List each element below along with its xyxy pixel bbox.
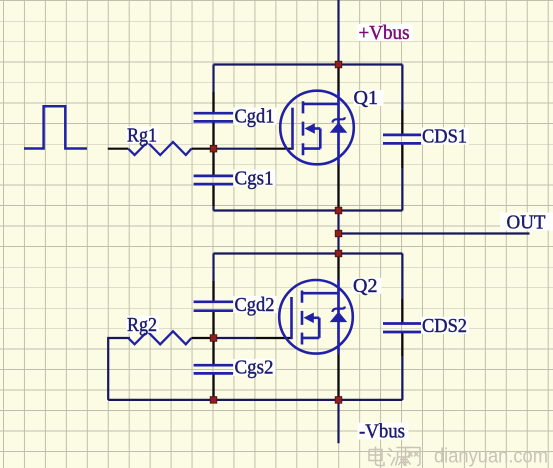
svg-text:Cgs2: Cgs2	[235, 357, 274, 379]
watermark glyph 源	[388, 448, 411, 466]
pin Q1 drain	[337, 65, 339, 92]
svg-text:Q1: Q1	[354, 87, 378, 109]
watermark glyph 电	[369, 447, 384, 466]
node J1 top rail / +Vbus	[335, 61, 342, 68]
label -Vbus	[358, 423, 409, 440]
pulse source symbol	[24, 106, 87, 148]
pin Q2 drain	[337, 254, 339, 281]
label Rg1	[126, 127, 159, 144]
label OUT	[500, 213, 553, 231]
svg-text:-Vbus: -Vbus	[359, 421, 405, 443]
capacitor Cgd1	[194, 113, 234, 121]
wire Q1 box bottom rail	[214, 209, 403, 211]
wire +Vbus vertical / center rail x=338.5	[337, 0, 339, 443]
label Cgd1	[234, 108, 277, 125]
wire Q2 gate horizontal	[214, 337, 257, 339]
wire Q2 gate node left vertical segments x=213.5	[212, 254, 214, 400]
pin Q1 source	[337, 165, 339, 211]
svg-text:OUT: OUT	[507, 211, 546, 233]
pin Q2 source	[337, 354, 339, 400]
label Cgs2	[234, 359, 276, 376]
MOSFET Q2	[279, 280, 353, 354]
pin Rg1 right	[191, 148, 214, 150]
capacitor CDS2	[383, 324, 422, 333]
svg-text:dianyuan.com: dianyuan.com	[434, 444, 548, 467]
label Q2	[352, 278, 382, 294]
pin Q2 gate	[256, 337, 292, 339]
pin Cgs1	[212, 149, 214, 206]
node J3 Q1 source rail	[335, 207, 342, 214]
label Q1	[354, 90, 384, 106]
capacitor CDS1	[383, 135, 422, 144]
wire Q1 gate node left vertical segments x=213.5	[212, 65, 214, 211]
node J8 Cgs2 bottom	[210, 397, 217, 404]
label CDS2	[421, 317, 469, 334]
wire Q1 box top rail	[214, 63, 403, 65]
pin Cgd2	[212, 281, 214, 338]
capacitor Cgs2	[194, 365, 234, 373]
svg-text:Cgd1: Cgd1	[235, 105, 275, 127]
label Cgd2	[234, 296, 277, 313]
svg-text:Cgd2: Cgd2	[235, 294, 275, 316]
capacitor Cgs1	[194, 176, 234, 184]
wire Q1 gate horizontal	[214, 148, 257, 150]
svg-text:Cgs1: Cgs1	[235, 167, 274, 189]
pin Q1 gate	[256, 148, 293, 150]
label +Vbus	[357, 24, 413, 41]
pin Cgs2	[212, 338, 214, 396]
label CDS1	[421, 128, 469, 145]
pin Rg1 left	[108, 148, 128, 150]
label Cgs1	[234, 170, 276, 187]
svg-text:Q2: Q2	[353, 275, 377, 297]
node J2 Q1 gate	[210, 145, 217, 152]
node J6 Q2 gate	[210, 335, 217, 342]
wire Q2 box top rail	[214, 252, 403, 254]
svg-text:CDS1: CDS1	[422, 126, 467, 148]
watermark glyph 网	[406, 448, 421, 466]
wire OUT net	[339, 232, 530, 234]
svg-text:CDS2: CDS2	[422, 315, 467, 337]
pin Rg2 right	[191, 337, 214, 339]
label Rg2	[126, 316, 159, 333]
wire CDS1 right branch x=402.4	[401, 65, 403, 211]
capacitor Cgd2	[194, 302, 234, 311]
pin CDS2	[401, 299, 403, 356]
wire Rg2 left loop	[108, 338, 130, 400]
node J4 OUT	[335, 230, 342, 237]
svg-text:+Vbus: +Vbus	[359, 22, 410, 44]
pin CDS1	[401, 110, 403, 168]
resistor Rg1	[128, 142, 191, 155]
wire CDS2 right branch x=402.4	[401, 254, 403, 400]
svg-text:Rg1: Rg1	[127, 125, 157, 147]
svg-text:Rg2: Rg2	[127, 314, 157, 336]
pin Cgd1	[212, 92, 214, 149]
node J7 bottom rail / -Vbus	[335, 397, 342, 404]
resistor Rg2	[128, 331, 191, 344]
wire bottom rail (-Vbus)	[108, 399, 402, 401]
MOSFET Q1	[280, 91, 354, 165]
node J5 Q2 drain rail	[335, 250, 342, 257]
